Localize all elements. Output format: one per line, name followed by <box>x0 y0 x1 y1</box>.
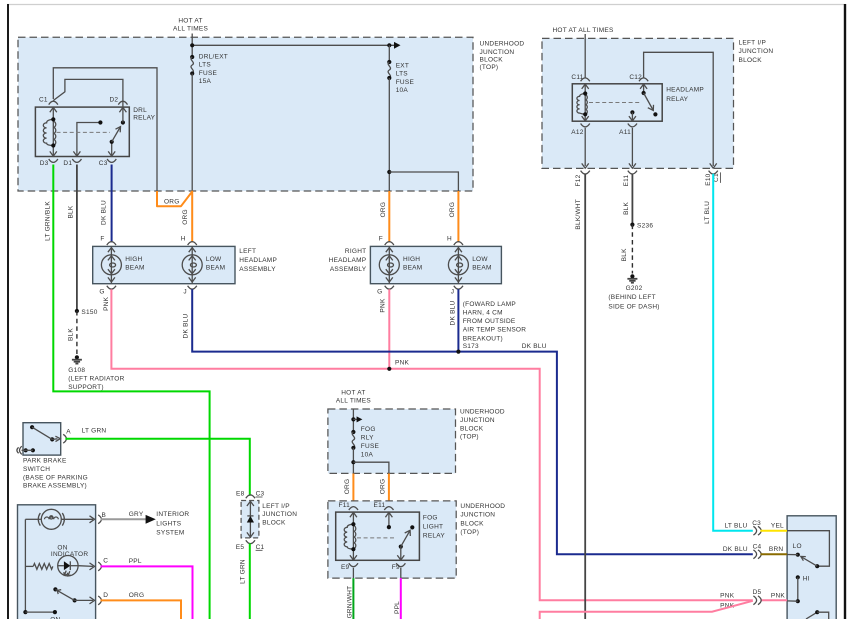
svg-text:INTERIOR: INTERIOR <box>156 511 189 518</box>
page left border line <box>7 4 9 619</box>
lamp left high beam <box>101 246 144 283</box>
svg-text:GRY: GRY <box>129 511 144 518</box>
terminal H left <box>181 236 197 245</box>
svg-text:LT GRN/BLK: LT GRN/BLK <box>45 201 52 241</box>
svg-text:HEADLAMP: HEADLAMP <box>329 257 367 264</box>
wire LT GRN from park brake to diode <box>65 439 249 496</box>
svg-text:H: H <box>447 236 452 243</box>
svg-text:BEAM: BEAM <box>125 265 144 272</box>
svg-text:D2: D2 <box>109 96 118 103</box>
ground G202 <box>608 274 659 310</box>
svg-text:C1: C1 <box>39 96 48 103</box>
dome lamp symbol <box>25 509 94 529</box>
wire PNK from left G to D5 <box>111 289 752 600</box>
wire fog fuse down to border with branch <box>351 448 389 474</box>
wire BLK/WHT from F12 <box>584 174 586 619</box>
resistor R1 <box>25 564 52 570</box>
svg-text:RELAY: RELAY <box>423 532 445 539</box>
terminal H right <box>447 236 463 245</box>
wire ORG to right high beam F <box>388 191 390 242</box>
svg-text:DRL/EXT: DRL/EXT <box>199 53 228 60</box>
headlamp switch box <box>787 516 836 619</box>
left I/P junction block dashed box <box>542 38 734 168</box>
svg-text:FUSE: FUSE <box>396 79 415 86</box>
wire DK GRN/WHT from E9 <box>352 578 354 619</box>
terminal A11 <box>619 124 637 137</box>
terminal E9 <box>341 563 358 578</box>
relay K1 coil <box>43 107 57 156</box>
svg-text:(TOP): (TOP) <box>460 529 479 536</box>
svg-text:HEADLAMP: HEADLAMP <box>666 87 704 94</box>
svg-text:C3: C3 <box>99 160 108 167</box>
LED on indicator <box>58 556 95 577</box>
terminal E8 C3 diode <box>236 491 264 499</box>
svg-text:HI: HI <box>803 576 810 583</box>
svg-text:(LEFT RADIATOR: (LEFT RADIATOR <box>68 376 124 383</box>
relay K1 switch arm C3 to D2 <box>108 99 125 157</box>
terminal C1 <box>39 96 58 112</box>
terminal D interior <box>98 592 108 605</box>
svg-text:DK BLU: DK BLU <box>723 546 748 553</box>
underhood junction block (top) dashed box <box>18 37 473 191</box>
svg-text:G: G <box>377 288 382 295</box>
svg-text:UNDERHOOD: UNDERHOOD <box>460 408 505 415</box>
interior switch arm <box>53 587 94 604</box>
wire ORG to F11 <box>352 474 354 508</box>
svg-text:G202: G202 <box>626 285 643 292</box>
svg-text:LT BLU: LT BLU <box>704 201 711 224</box>
svg-text:BREAKOUT): BREAKOUT) <box>463 335 503 342</box>
svg-text:EXT: EXT <box>396 62 409 69</box>
fog fuse dashed box underhood junction block <box>328 409 456 473</box>
DRL relay box <box>35 107 129 156</box>
svg-text:PNK: PNK <box>380 298 387 313</box>
page right border line <box>844 4 846 619</box>
svg-text:DK BLU: DK BLU <box>522 343 547 350</box>
svg-text:ORG: ORG <box>379 479 386 495</box>
svg-text:DK BLU: DK BLU <box>101 200 108 225</box>
wire BLK from E11 to S236 <box>631 174 633 225</box>
terminal E5 C1 diode <box>236 540 265 551</box>
terminal J left <box>183 286 196 296</box>
svg-text:JUNCTION: JUNCTION <box>460 417 495 424</box>
terminal J right <box>451 286 463 296</box>
svg-text:FOG: FOG <box>361 426 376 433</box>
svg-text:J: J <box>183 288 187 295</box>
svg-text:C3: C3 <box>256 491 265 498</box>
svg-text:B: B <box>102 512 107 519</box>
svg-text:ORG: ORG <box>344 479 351 495</box>
splice S150 <box>75 309 98 316</box>
relay K2 coil <box>577 84 589 121</box>
svg-text:H: H <box>181 236 186 243</box>
svg-text:BLOCK: BLOCK <box>460 426 484 433</box>
connector C3 inline <box>724 520 784 535</box>
svg-text:LTS: LTS <box>396 71 409 78</box>
terminal E11 fog <box>374 502 394 517</box>
svg-text:BLK: BLK <box>67 205 74 218</box>
svg-text:BLK: BLK <box>621 248 628 261</box>
svg-text:PNK: PNK <box>771 592 786 599</box>
svg-text:10A: 10A <box>396 87 409 94</box>
wire LT GRN below diode <box>249 544 251 619</box>
right headlamp assembly box <box>370 246 501 283</box>
svg-text:JUNCTION: JUNCTION <box>739 48 774 55</box>
svg-text:JUNCTION: JUNCTION <box>480 49 515 56</box>
svg-text:HIGH: HIGH <box>403 256 420 263</box>
relay K3 mechanical link dashed <box>357 537 396 539</box>
wire A12 to F12 <box>581 128 590 174</box>
svg-text:C4: C4 <box>753 543 762 550</box>
relay K2 mechanical link dashed <box>589 102 640 104</box>
svg-text:YEL: YEL <box>771 523 784 530</box>
terminal G right <box>377 286 394 296</box>
svg-text:HOT AT: HOT AT <box>341 389 365 396</box>
wire PNK lower from bottom <box>540 601 753 619</box>
wire DK BLU from left J to C4 <box>192 289 753 554</box>
fuse F1 DRL/EXT LTS FUSE 15A <box>190 53 228 85</box>
svg-text:LIGHTS: LIGHTS <box>156 520 181 527</box>
svg-text:FUSE: FUSE <box>361 443 380 450</box>
wire from hot feed to DRL/EXT fuse <box>191 34 193 57</box>
wire BLK dashed to G202 <box>631 225 633 274</box>
wire ORG from D <box>101 600 182 619</box>
wire LT GRN/BLK from D3 <box>53 165 209 619</box>
diode dashed box left I/P junction block <box>241 501 259 538</box>
svg-text:LOW: LOW <box>206 256 222 263</box>
svg-text:A: A <box>66 429 71 436</box>
svg-text:LEFT I/P: LEFT I/P <box>739 39 767 46</box>
headlamp switch hi contact <box>787 575 810 603</box>
diode CR1 <box>247 501 254 538</box>
interior bus wire <box>23 519 57 614</box>
terminal C interior <box>98 558 108 571</box>
svg-text:BLK: BLK <box>623 201 630 214</box>
svg-text:F11: F11 <box>339 502 351 509</box>
svg-text:J: J <box>451 288 455 295</box>
wire hot feed to C11 <box>584 34 586 78</box>
svg-text:(FOWARD LAMP: (FOWARD LAMP <box>463 301 516 308</box>
terminal C3 <box>99 159 117 167</box>
svg-text:ASSEMBLY: ASSEMBLY <box>239 266 276 273</box>
svg-text:F: F <box>379 236 383 243</box>
terminal B <box>98 512 106 524</box>
svg-text:HIGH: HIGH <box>125 256 142 263</box>
lamp right low beam <box>448 246 491 283</box>
svg-text:HARN, 4 CM: HARN, 4 CM <box>463 310 503 317</box>
lamp left low beam <box>182 246 225 283</box>
wire LT BLU from E10 to C3 <box>713 174 753 531</box>
fuse F3 FOG RLY FUSE 10A <box>351 426 379 459</box>
fog light relay box <box>336 512 420 560</box>
svg-text:JUNCTION: JUNCTION <box>460 512 495 519</box>
splice S173 note <box>463 301 527 350</box>
svg-text:ORG: ORG <box>449 202 456 218</box>
svg-text:E11: E11 <box>623 174 630 186</box>
terminal D2 <box>109 96 127 112</box>
svg-text:RELAY: RELAY <box>133 115 155 122</box>
svg-text:C1: C1 <box>256 544 265 551</box>
svg-text:PNK: PNK <box>103 296 110 311</box>
svg-text:ALL TIMES: ALL TIMES <box>173 26 209 33</box>
svg-text:FOG: FOG <box>423 515 438 522</box>
svg-text:C3: C3 <box>752 520 761 527</box>
terminal C12 <box>629 74 648 89</box>
interior lights box <box>18 505 96 619</box>
terminal A <box>63 429 71 444</box>
wire ORG to right low beam H <box>457 191 459 242</box>
relay K1 fixed contact from D1 <box>73 120 102 156</box>
svg-text:PPL: PPL <box>394 601 401 614</box>
wire PPL from C <box>101 566 193 619</box>
svg-text:UNDERHOOD: UNDERHOOD <box>460 503 505 510</box>
svg-text:SUPPORT): SUPPORT) <box>68 384 103 391</box>
svg-text:DK BLU: DK BLU <box>450 300 457 325</box>
wire YEL <box>760 530 787 532</box>
svg-text:LT GRN: LT GRN <box>82 427 107 434</box>
svg-text:C12: C12 <box>629 74 642 81</box>
wire ORG to E11 fog <box>388 474 390 508</box>
relay K2 contact to A11 <box>629 110 636 121</box>
svg-text:A12: A12 <box>571 129 583 136</box>
relay K2 switch arm from C12 <box>642 84 658 117</box>
splice S236 <box>630 223 653 230</box>
svg-text:C11: C11 <box>571 74 583 81</box>
terminal D1 <box>63 159 81 167</box>
svg-text:DRL: DRL <box>133 107 147 114</box>
svg-text:G: G <box>99 288 104 295</box>
svg-text:LT GRN: LT GRN <box>239 559 246 584</box>
svg-text:LEFT: LEFT <box>239 248 256 255</box>
wire PPL from F9 <box>400 578 402 619</box>
svg-text:ALL TIMES: ALL TIMES <box>336 397 372 404</box>
terminal E10 <box>709 163 718 174</box>
svg-text:E10: E10 <box>705 173 712 185</box>
svg-text:LTS: LTS <box>199 62 212 69</box>
wire: fuse bus with arrow to right <box>190 42 400 49</box>
relay K3 coil <box>344 512 357 560</box>
svg-text:E5: E5 <box>236 544 245 551</box>
wire from EXT fuse down to border with branch <box>387 78 458 191</box>
svg-text:UNDERHOOD: UNDERHOOD <box>480 40 525 47</box>
fog relay dashed box underhood junction block <box>328 501 456 578</box>
headlamp switch lower switch <box>806 610 829 619</box>
svg-text:DK BLU: DK BLU <box>183 313 190 338</box>
svg-text:INDICATOR: INDICATOR <box>51 551 88 558</box>
label C1 underlined <box>713 172 721 183</box>
svg-text:D: D <box>103 592 108 599</box>
wire F9 down from switch arm <box>397 547 404 561</box>
svg-text:HOT AT ALL TIMES: HOT AT ALL TIMES <box>552 27 613 34</box>
terminal F9 <box>392 563 406 578</box>
svg-text:ORG: ORG <box>129 592 145 599</box>
svg-text:A11: A11 <box>619 129 631 136</box>
terminal F11 <box>339 502 358 517</box>
svg-text:10A: 10A <box>361 452 374 459</box>
svg-text:FROM OUTSIDE: FROM OUTSIDE <box>463 318 516 325</box>
wire DK BLU from C3 to left high beam F <box>111 165 113 243</box>
svg-text:ORG: ORG <box>182 209 189 225</box>
svg-text:RIGHT: RIGHT <box>345 248 366 255</box>
wire from bus to EXT fuse <box>388 45 390 62</box>
park brake switch arm <box>30 425 60 442</box>
svg-text:G108: G108 <box>68 367 85 374</box>
svg-text:S236: S236 <box>637 223 653 230</box>
headlamp relay box <box>572 84 662 121</box>
svg-text:BLOCK: BLOCK <box>480 57 504 64</box>
terminal G left <box>99 286 116 296</box>
svg-text:LO: LO <box>793 543 802 550</box>
relay K3 switch arm <box>399 525 415 548</box>
svg-text:BEAM: BEAM <box>403 265 422 272</box>
wire PNK branch from right G <box>387 289 391 371</box>
svg-text:BEAM: BEAM <box>206 265 225 272</box>
svg-text:(TOP): (TOP) <box>480 64 499 71</box>
svg-text:BLK: BLK <box>67 328 74 341</box>
svg-text:LT BLU: LT BLU <box>724 523 747 530</box>
connector D5 inline <box>720 589 787 609</box>
fuse F2 EXT LTS FUSE 10A <box>387 60 414 94</box>
svg-text:PNK: PNK <box>720 592 735 599</box>
wire BRN <box>760 553 797 555</box>
svg-text:RELAY: RELAY <box>666 96 688 103</box>
terminal C11 <box>571 74 589 89</box>
svg-text:(BEHIND LEFT: (BEHIND LEFT <box>608 294 655 301</box>
terminal F right <box>379 236 394 245</box>
svg-text:15A: 15A <box>199 78 212 85</box>
wire GRY to interior lights <box>101 515 156 524</box>
svg-text:E9: E9 <box>341 564 350 571</box>
wire DK BLU branch from right J <box>456 289 460 354</box>
svg-text:(BASE OF PARKING: (BASE OF PARKING <box>23 474 88 481</box>
svg-text:S173: S173 <box>463 343 479 350</box>
svg-text:PPL: PPL <box>129 558 142 565</box>
svg-text:JUNCTION: JUNCTION <box>262 511 297 518</box>
svg-text:LIGHT: LIGHT <box>423 523 443 530</box>
wire C12 loop to E10 <box>644 52 714 166</box>
svg-text:(TOP): (TOP) <box>460 434 479 441</box>
svg-text:BEAM: BEAM <box>472 265 491 272</box>
svg-text:BLK/WHT: BLK/WHT <box>575 199 582 230</box>
svg-text:HEADLAMP: HEADLAMP <box>239 257 277 264</box>
svg-text:BLOCK: BLOCK <box>739 57 763 64</box>
svg-text:BLOCK: BLOCK <box>460 520 484 527</box>
svg-text:DK GRN/WHT: DK GRN/WHT <box>347 586 354 619</box>
svg-text:PNK: PNK <box>395 360 410 367</box>
svg-text:C: C <box>103 558 108 565</box>
terminal D3 <box>40 159 58 167</box>
svg-text:HOT AT: HOT AT <box>178 17 202 24</box>
svg-text:PARK BRAKE: PARK BRAKE <box>23 458 67 465</box>
svg-text:SWITCH: SWITCH <box>23 466 50 473</box>
headlamp switch lo circuit <box>787 531 829 569</box>
wire BLK dashed to ground <box>76 311 78 355</box>
svg-text:BLOCK: BLOCK <box>262 519 286 526</box>
wire ORG jog from DRL/EXT fuse to left low beam H <box>157 191 192 242</box>
svg-text:F: F <box>100 236 104 243</box>
svg-text:F9: F9 <box>392 564 400 571</box>
svg-text:D5: D5 <box>753 589 762 596</box>
lamp right high beam <box>379 246 422 283</box>
svg-text:F12: F12 <box>575 174 582 186</box>
page top border line <box>7 4 846 6</box>
terminal A12 <box>571 124 590 137</box>
svg-text:D1: D1 <box>63 160 72 167</box>
svg-text:RLY: RLY <box>361 435 374 442</box>
svg-text:BRN: BRN <box>769 546 784 553</box>
svg-text:LOW: LOW <box>472 256 488 263</box>
svg-text:SIDE OF DASH): SIDE OF DASH) <box>608 303 659 310</box>
svg-text:LEFT I/P: LEFT I/P <box>262 503 290 510</box>
terminal F left <box>100 236 116 245</box>
svg-text:BRAKE ASSEMBLY): BRAKE ASSEMBLY) <box>23 482 87 489</box>
ground G108 <box>68 355 124 391</box>
left headlamp assembly box <box>93 246 235 283</box>
wire hot feed to fog fuse with arrow <box>351 410 362 433</box>
relay K1 mechanical link dashed <box>57 131 111 133</box>
relay K3 contact from E11 <box>387 512 391 529</box>
svg-text:AIR TEMP SENSOR: AIR TEMP SENSOR <box>463 327 527 334</box>
svg-text:FUSE: FUSE <box>199 70 218 77</box>
connector C4 inline <box>723 543 784 558</box>
svg-text:ORG: ORG <box>164 198 180 205</box>
svg-text:S150: S150 <box>81 309 97 316</box>
svg-text:D3: D3 <box>40 160 49 167</box>
svg-text:ASSEMBLY: ASSEMBLY <box>330 266 367 273</box>
wire C1 loop to org drop <box>53 68 157 191</box>
svg-text:E11: E11 <box>374 502 386 509</box>
wire BLK from D1 to S150 <box>76 165 78 312</box>
svg-text:ORG: ORG <box>380 202 387 218</box>
park brake chassis ground <box>17 446 35 454</box>
wire from DRL/EXT fuse down to border <box>191 74 193 192</box>
wire A11 to E11 <box>628 128 637 174</box>
park brake switch box <box>23 423 61 455</box>
svg-text:SYSTEM: SYSTEM <box>156 530 184 537</box>
wire C1 to D2 inner loop <box>53 79 123 100</box>
svg-text:E8: E8 <box>236 491 245 498</box>
